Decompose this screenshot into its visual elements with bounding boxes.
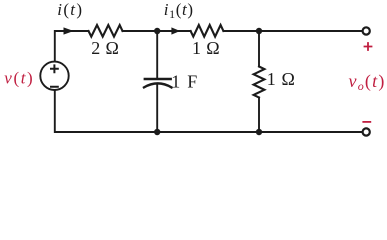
terminal top right <box>363 27 370 34</box>
current arrow i1(t) <box>171 27 180 34</box>
resistor R1 2 ohm <box>89 25 123 37</box>
wire R3 to bottom <box>258 98 260 133</box>
wire source bottom <box>55 90 362 132</box>
svg-text:1 Ω: 1 Ω <box>267 69 296 89</box>
polarity minus <box>362 121 371 123</box>
current arrow i(t) <box>64 27 74 34</box>
svg-text:i(t): i(t) <box>57 0 83 19</box>
svg-text:vo(t): vo(t) <box>349 71 386 93</box>
svg-text:v(t): v(t) <box>4 68 34 87</box>
voltage source V1 <box>40 62 68 90</box>
bottom junction dot under node A <box>154 129 160 135</box>
bottom junction dot under node B <box>256 129 262 135</box>
wire R1 to node A <box>123 30 191 32</box>
svg-text:1 F: 1 F <box>171 71 198 91</box>
svg-text:i1(t): i1(t) <box>164 0 194 21</box>
terminal bottom right <box>363 128 370 135</box>
wire top from source to R1 <box>55 31 89 62</box>
resistor R3 1 ohm vertical <box>254 67 265 98</box>
node A junction dot <box>154 28 160 34</box>
svg-text:2 Ω: 2 Ω <box>91 38 119 58</box>
capacitor C1 curved plate <box>144 83 172 87</box>
capacitor C1 top plate <box>145 78 171 80</box>
resistor R2 1 ohm <box>191 25 224 37</box>
node B junction dot <box>256 28 262 34</box>
polarity plus <box>364 42 373 51</box>
wire capacitor bottom <box>156 84 158 132</box>
svg-text:1 Ω: 1 Ω <box>192 38 220 58</box>
wire capacitor top <box>156 31 158 79</box>
wire R2 to node B and terminal <box>223 30 362 32</box>
wire node B to R3 <box>258 31 260 67</box>
